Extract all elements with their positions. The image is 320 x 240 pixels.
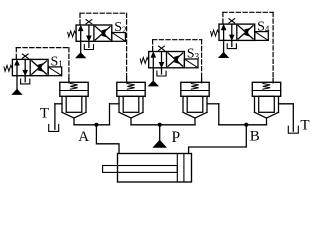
svg-text:T: T	[300, 117, 309, 133]
svg-text:S2: S2	[114, 20, 126, 35]
svg-text:S1: S1	[51, 55, 63, 70]
svg-text:B: B	[250, 129, 260, 145]
svg-text:S4: S4	[257, 19, 270, 34]
svg-text:A: A	[78, 129, 89, 145]
svg-text:S3: S3	[187, 47, 200, 62]
svg-text:T: T	[40, 105, 49, 121]
svg-text:P: P	[172, 129, 181, 146]
